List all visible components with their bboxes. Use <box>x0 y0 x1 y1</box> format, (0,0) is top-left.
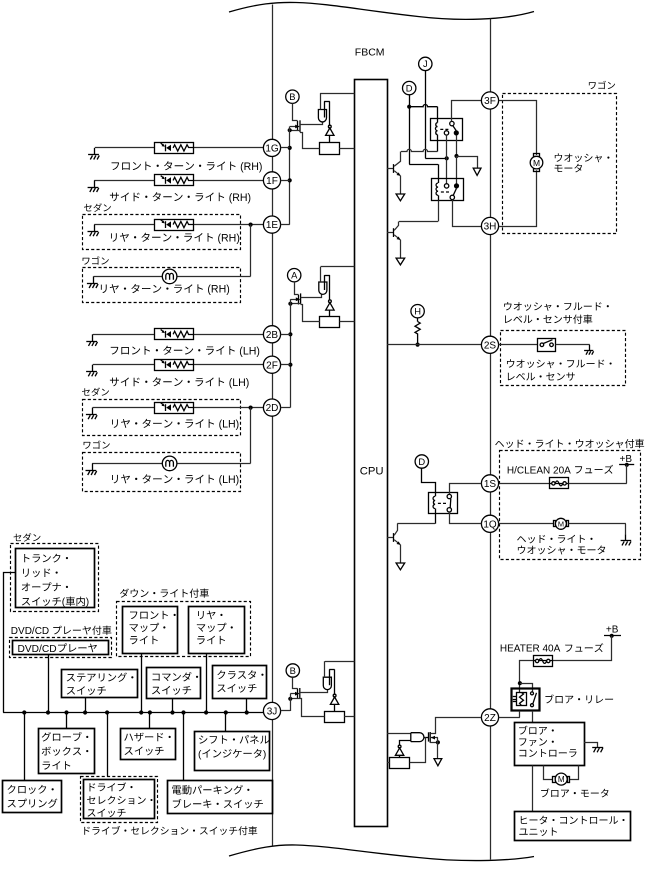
svg-text:H/CLEAN 20A: H/CLEAN 20A <box>507 465 571 476</box>
svg-text:3F: 3F <box>484 96 496 107</box>
svg-text:2D: 2D <box>266 403 279 414</box>
svg-text:D: D <box>406 82 413 93</box>
svg-text:(: ( <box>198 749 202 760</box>
svg-text:J: J <box>423 58 428 69</box>
svg-text:H: H <box>414 306 421 317</box>
svg-text:3J: 3J <box>267 707 278 718</box>
svg-text:1Q: 1Q <box>483 519 497 530</box>
svg-text:HEATER 40A: HEATER 40A <box>500 644 561 655</box>
svg-text:M: M <box>558 775 565 784</box>
svg-text:(RH): (RH) <box>240 161 262 173</box>
svg-text:(RH): (RH) <box>218 232 240 244</box>
svg-text:2Z: 2Z <box>484 713 496 724</box>
svg-text:2S: 2S <box>484 340 497 351</box>
svg-text:(RH): (RH) <box>229 192 251 204</box>
svg-text:(: ( <box>62 597 66 608</box>
svg-text:2B: 2B <box>266 330 279 341</box>
svg-text:(LH): (LH) <box>219 474 240 486</box>
svg-text:1E: 1E <box>266 220 279 231</box>
svg-text:1F: 1F <box>266 176 278 187</box>
svg-text:B: B <box>289 91 295 102</box>
svg-text:DVD/CD: DVD/CD <box>11 626 49 637</box>
svg-text:(LH): (LH) <box>239 345 260 357</box>
svg-text:(RH): (RH) <box>207 284 229 296</box>
svg-text:D: D <box>418 456 425 467</box>
svg-text:FBCM: FBCM <box>355 47 385 59</box>
svg-text:M: M <box>533 158 540 168</box>
svg-text:M: M <box>558 520 564 529</box>
svg-text:3H: 3H <box>484 222 497 233</box>
svg-text:(LH): (LH) <box>229 377 250 389</box>
svg-text:): ) <box>86 597 89 608</box>
svg-text:1G: 1G <box>265 144 279 155</box>
svg-text:B: B <box>290 665 296 676</box>
svg-text:): ) <box>263 749 266 760</box>
svg-text:CPU: CPU <box>360 466 384 478</box>
svg-text:1S: 1S <box>484 479 497 490</box>
svg-text:DVD/CD: DVD/CD <box>18 644 57 655</box>
svg-text:2F: 2F <box>266 360 278 371</box>
svg-text:(LH): (LH) <box>219 418 240 430</box>
svg-text:A: A <box>291 270 298 281</box>
